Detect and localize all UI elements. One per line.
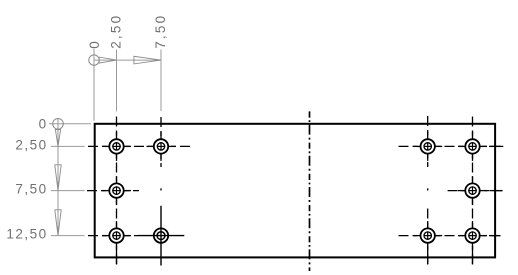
hole column centerline L2 x=161 upper dashed: [160, 117, 162, 167]
hole H5 anchor (L2,row3) with long solid crosshair: [138, 206, 184, 266]
hole H10 (R2,row3): [458, 221, 487, 250]
left extension line y=146.4 (2,50): [51, 145, 85, 147]
hole row centerline row3 left dashed part: [88, 235, 138, 237]
hole column centerline L2 dot at row2: [160, 188, 162, 190]
hole H1 (L1,row1): [102, 132, 131, 161]
left extension line y=190.6 (7,50): [51, 190, 85, 192]
top label 7,50: [153, 14, 168, 49]
hole column centerline R1 lower dashed: [427, 209, 429, 265]
hole H6 (R1,row1): [413, 132, 442, 161]
left label 2,50: [15, 137, 47, 152]
left ordinate arrow to 12,50: [55, 210, 61, 236]
svg-text:0: 0: [87, 39, 102, 49]
left extension line y=235.6 (12,50): [51, 235, 85, 237]
plate outline: [95, 124, 495, 258]
hole H3 (L1,row2): [102, 176, 131, 205]
svg-text:12,50: 12,50: [6, 226, 47, 241]
ordinate dim extension line x=161 (7,50 top): [160, 50, 162, 112]
svg-text:2,50: 2,50: [15, 137, 47, 152]
left ordinate origin extension y=123.8 (0 left): [49, 123, 91, 125]
left label 12,50: [6, 226, 47, 241]
svg-text:7,50: 7,50: [153, 14, 168, 49]
hole row centerline row2 left: [87, 190, 139, 192]
hole H2 (L2,row1): [147, 132, 176, 161]
vertical centerline of plate: [309, 111, 311, 271]
hole row centerline row1 left: [88, 145, 190, 147]
hole row centerline row2 right: [448, 190, 503, 192]
hole H8 (R2,row2): [458, 176, 487, 205]
left label 7,50: [15, 181, 47, 196]
hole H9 (R1,row3): [413, 221, 442, 250]
svg-text:2,50: 2,50: [109, 14, 124, 49]
left ordinate arrow to 7,50: [55, 165, 61, 191]
top ordinate origin circle: [89, 55, 99, 65]
top ordinate arrow to 7,50: [134, 56, 161, 64]
top ordinate arrow to 2,50: [99, 57, 116, 63]
hole H4 (L1,row3): [102, 221, 131, 250]
hole column centerline R1 x=427.7 upper dashed: [427, 116, 429, 167]
ordinate dim origin extension x=94 (0 top): [93, 49, 95, 121]
hole row centerline row3 right: [399, 235, 501, 237]
top dimension line y=60.1: [94, 59, 161, 61]
left ordinate arrow to 2,50: [55, 130, 60, 147]
svg-text:0: 0: [39, 117, 48, 132]
hole column centerline R2 x=472.5: [472, 117, 474, 265]
hole row centerline row1 right: [399, 145, 504, 147]
ordinate dim extension line x=116.5 (2,50 top): [116, 50, 118, 112]
hole column centerline R1 dot at row2: [427, 188, 429, 190]
top label 0: [87, 39, 102, 49]
left dimension line x=58: [57, 119, 59, 237]
left label 0: [39, 117, 48, 132]
hole H7 (R2,row1): [458, 132, 487, 161]
svg-text:7,50: 7,50: [15, 181, 47, 196]
top label 2,50: [109, 14, 124, 49]
hole column centerline L1 x=116.5: [116, 117, 118, 265]
left ordinate origin circle: [53, 119, 64, 130]
